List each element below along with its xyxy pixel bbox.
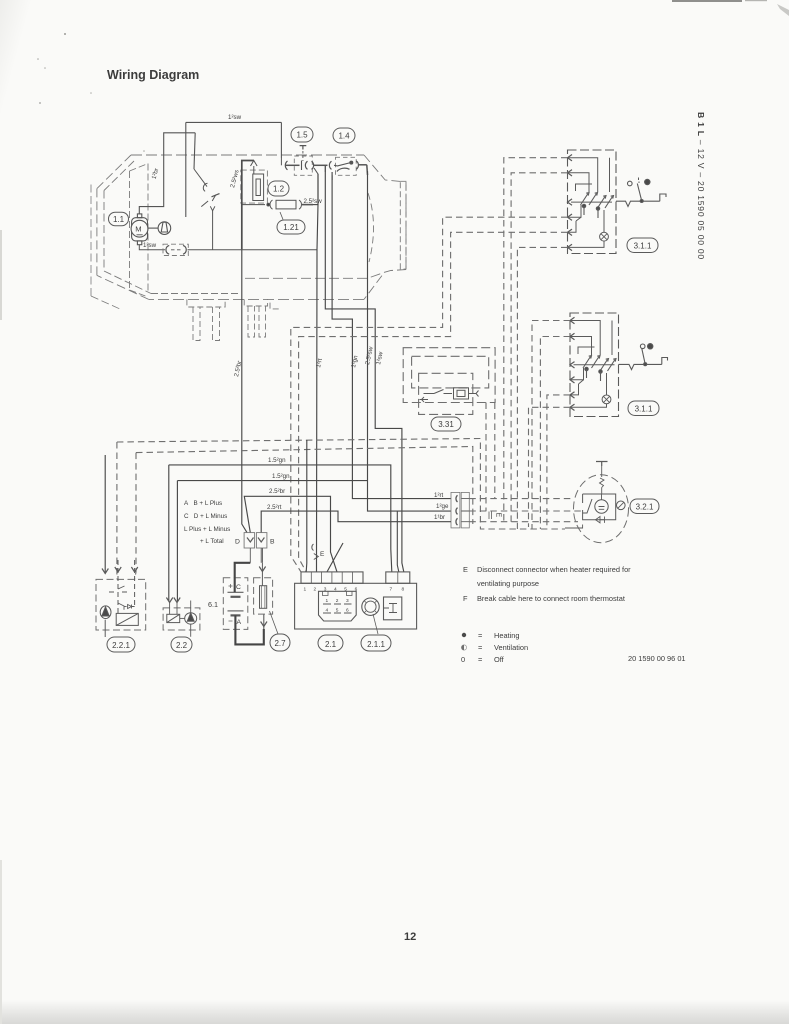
svg-text:=: =: [478, 643, 482, 652]
svg-text:8: 8: [402, 587, 405, 593]
svg-text:2.2.1: 2.2.1: [112, 641, 130, 650]
svg-text:B 1 L – 12 V – 20 1590 05 00 0: B 1 L – 12 V – 20 1590 05 00 00: [696, 112, 706, 260]
svg-text:1.21: 1.21: [283, 223, 299, 232]
svg-text:1²br: 1²br: [151, 168, 161, 180]
svg-text:Ventilation: Ventilation: [494, 643, 528, 652]
svg-text:5: 5: [344, 587, 347, 593]
svg-text:4: 4: [326, 608, 329, 614]
svg-text:1.5²gn: 1.5²gn: [268, 457, 286, 464]
svg-text:2.5²sw: 2.5²sw: [364, 346, 375, 366]
svg-text:1²ge: 1²ge: [436, 503, 449, 510]
svg-text:L Plus + L Minus: L Plus + L Minus: [184, 526, 230, 533]
svg-text:1.5²gn: 1.5²gn: [272, 473, 290, 480]
svg-text:D: D: [235, 539, 240, 546]
svg-text:Disconnect connector when heat: Disconnect connector when heater require…: [477, 565, 631, 574]
svg-text:1.1: 1.1: [113, 215, 125, 224]
svg-text:C: C: [236, 584, 241, 591]
svg-text:2: 2: [314, 587, 317, 593]
svg-text:2.7: 2.7: [274, 639, 286, 648]
svg-text:3: 3: [346, 598, 349, 604]
svg-text:1²rt: 1²rt: [434, 492, 444, 499]
svg-text:1: 1: [304, 587, 307, 593]
svg-text:6: 6: [355, 587, 358, 593]
svg-text:2.1.1: 2.1.1: [367, 640, 385, 649]
svg-text:A: A: [237, 619, 242, 626]
svg-text:1²sw: 1²sw: [143, 242, 157, 249]
svg-text:=: =: [478, 655, 482, 664]
svg-text:E: E: [463, 565, 468, 574]
svg-text:12: 12: [404, 931, 416, 943]
svg-text:2.5²br: 2.5²br: [269, 488, 285, 495]
svg-text:ventilating purpose: ventilating purpose: [477, 579, 539, 588]
svg-text:B: B: [270, 539, 275, 546]
svg-text:5: 5: [336, 608, 339, 614]
svg-text:1.2: 1.2: [273, 185, 285, 194]
svg-text:3.2.1: 3.2.1: [636, 503, 654, 512]
svg-text:1²gn: 1²gn: [350, 354, 360, 368]
svg-text:20 1590 00 96 01: 20 1590 00 96 01: [628, 654, 686, 663]
svg-text:7: 7: [390, 587, 393, 593]
svg-text:2.1: 2.1: [325, 640, 337, 649]
svg-text:6.1: 6.1: [208, 600, 218, 609]
svg-text:=: =: [478, 631, 482, 640]
svg-text:E: E: [495, 513, 502, 518]
svg-text:E: E: [320, 551, 325, 558]
svg-text:F: F: [463, 594, 468, 603]
svg-text:A B + L Plus: A B + L Plus: [184, 500, 222, 507]
svg-text:3.31: 3.31: [438, 420, 454, 429]
svg-text:3.1.1: 3.1.1: [635, 405, 653, 414]
svg-text:1²sw: 1²sw: [228, 114, 242, 121]
svg-text:Off: Off: [494, 655, 505, 664]
svg-text:3.1.1: 3.1.1: [634, 242, 652, 251]
svg-text:C D + L Minus: C D + L Minus: [184, 513, 227, 520]
svg-text:1²sw: 1²sw: [375, 351, 385, 366]
svg-text:3: 3: [324, 587, 327, 593]
svg-text:Wiring Diagram: Wiring Diagram: [107, 68, 199, 82]
svg-text:1.4: 1.4: [338, 132, 350, 141]
svg-text:1.5: 1.5: [296, 131, 308, 140]
svg-text:0: 0: [461, 655, 465, 664]
svg-text:2.5²ws: 2.5²ws: [229, 169, 240, 188]
svg-text:Break cable here to connect ro: Break cable here to connect room thermos…: [477, 594, 625, 603]
svg-text:4: 4: [334, 587, 337, 593]
svg-text:6: 6: [346, 608, 349, 614]
svg-text:Heating: Heating: [494, 631, 519, 640]
svg-text:+ L Total: + L Total: [200, 538, 224, 545]
svg-text:1¹br: 1¹br: [434, 514, 445, 521]
svg-text:M: M: [135, 225, 141, 234]
svg-text:2: 2: [336, 598, 339, 604]
svg-text:2.5²rt: 2.5²rt: [267, 504, 282, 511]
svg-text:1: 1: [326, 598, 329, 604]
svg-text:2.2: 2.2: [176, 641, 188, 650]
